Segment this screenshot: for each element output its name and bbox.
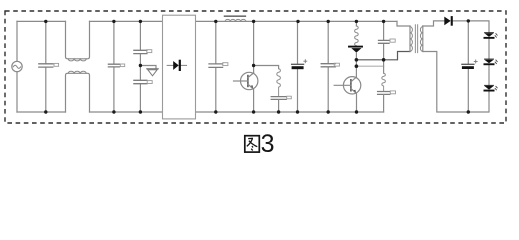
- capacitor C4: [134, 80, 147, 83]
- LED LED3: [484, 84, 494, 86]
- wire secondary bottom: [423, 52, 489, 113]
- resistor R2 startup coil: [355, 21, 357, 26]
- junction dots top wire: [44, 20, 47, 23]
- label C10: [390, 91, 395, 94]
- label C5: [223, 63, 228, 66]
- wire A to transformer primary bottom: [356, 52, 410, 60]
- common-mode choke L1 top winding: [66, 21, 90, 58]
- label C9: [390, 39, 395, 42]
- transformer T1 primary winding: [410, 27, 412, 52]
- junction dots middle: [139, 64, 142, 67]
- LED LED2: [484, 58, 494, 60]
- wire top main mid: [90, 20, 163, 22]
- electrolytic capacitor C7: [297, 21, 299, 112]
- capacitor C8: [321, 64, 335, 67]
- wire B to snubber: [356, 65, 383, 67]
- capacitor C6: [271, 97, 286, 100]
- bridge diode D2: [173, 61, 179, 70]
- wire to diode D1: [140, 66, 156, 69]
- diode D1: [147, 68, 158, 70]
- LED LED1: [484, 32, 494, 34]
- capacitor C2: [108, 64, 119, 67]
- bridge diode wire: [167, 64, 186, 66]
- wire bottom main left: [17, 111, 66, 113]
- wire top step to transformer: [397, 21, 410, 26]
- transformer T1 secondary winding: [420, 27, 422, 52]
- dashed frame border: [5, 11, 506, 123]
- node C1 branch: [45, 21, 47, 112]
- label C1: [54, 63, 59, 66]
- wire top main left: [17, 20, 66, 22]
- svg-text:3: 3: [261, 130, 275, 157]
- label C3: [147, 50, 152, 53]
- node C3/C4 branch: [139, 21, 141, 112]
- transistor Q2: [343, 77, 360, 94]
- capacitor C9: [379, 40, 390, 43]
- label C6: [287, 96, 292, 99]
- electrolytic capacitor C11: [467, 21, 469, 112]
- wire node to snubber R1: [254, 66, 279, 69]
- wire top main right: [196, 20, 398, 22]
- node C5 branch: [215, 21, 217, 112]
- label C4: [147, 81, 152, 84]
- snubber branch C9 R3 C10: [383, 21, 385, 73]
- wire bottom main right: [196, 111, 384, 113]
- inductor L2 core bar: [225, 15, 246, 17]
- capacitor C1: [39, 64, 53, 67]
- transistor Q1: [241, 72, 258, 89]
- capacitor C3: [134, 50, 147, 53]
- zener diode Z1: [349, 46, 362, 48]
- resistor R1 coil: [277, 69, 281, 97]
- junction dots bottom wire: [44, 110, 47, 113]
- capacitor C10: [378, 92, 390, 95]
- bridge rectifier U1 box: [163, 15, 196, 119]
- wire bottom main mid: [90, 111, 163, 113]
- wire secondary top: [423, 21, 489, 33]
- collector branch node: [253, 21, 255, 73]
- inductor L2 on top wire: [225, 19, 246, 21]
- transformer T1 core: [415, 25, 417, 53]
- common-mode choke L1 bottom winding: [66, 73, 90, 112]
- diode D3 secondary rectifier: [444, 17, 450, 26]
- node C8 branch: [327, 21, 329, 112]
- label C2: [120, 64, 124, 67]
- label C8: [334, 63, 339, 66]
- node C2 branch: [113, 21, 115, 112]
- AC source G1: [12, 61, 22, 71]
- capacitor C5: [209, 64, 223, 68]
- resistor R3 coil: [382, 73, 386, 91]
- caption 图3: [245, 136, 259, 152]
- wires between LEDs: [488, 39, 490, 93]
- wire left vertical: [16, 21, 18, 112]
